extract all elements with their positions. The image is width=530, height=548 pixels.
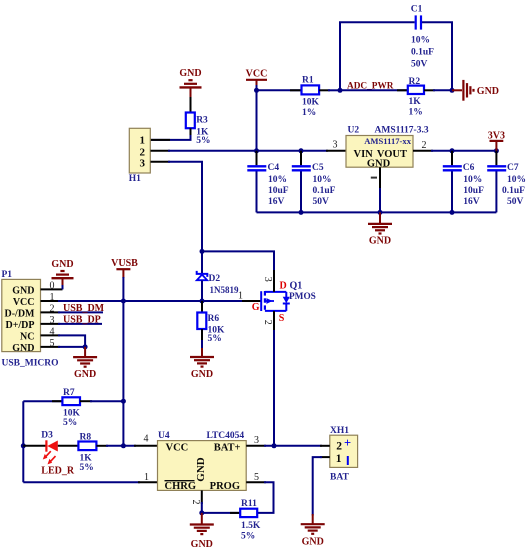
pin R7.2 xyxy=(80,400,92,402)
junction VUSB column xyxy=(121,299,126,304)
svg-text:3: 3 xyxy=(333,140,338,151)
pin H1.3 xyxy=(151,161,171,163)
ground GND above R3 (inverted earth) xyxy=(179,68,201,98)
pin H1.2 xyxy=(151,150,171,152)
wire H1 pin2 to U2 VIN row xyxy=(168,150,328,152)
wire R7 row left xyxy=(23,400,64,402)
ground GND right (sideways earth) xyxy=(452,80,499,101)
svg-text:5: 5 xyxy=(254,472,259,483)
pin XH1.1 xyxy=(320,456,330,458)
svg-text:Q1: Q1 xyxy=(290,280,303,291)
ground GND under P1.5 xyxy=(73,347,97,380)
diode D3 LED xyxy=(41,430,75,476)
svg-text:3: 3 xyxy=(140,157,146,169)
pin U4.2 GND (rotated number) xyxy=(190,490,202,504)
pin Q1 gate lead xyxy=(242,300,262,302)
junction 3V3/C7 xyxy=(494,148,499,153)
junction U4 GND / R11 xyxy=(199,510,204,515)
power port VUSB xyxy=(111,258,138,278)
wire pin5 to junction xyxy=(58,346,85,348)
pin U4.5 PROG xyxy=(246,472,266,483)
svg-text:AMS1117-xx: AMS1117-xx xyxy=(364,136,411,146)
svg-text:GND: GND xyxy=(51,259,73,270)
svg-text:1.5K: 1.5K xyxy=(241,521,261,531)
wire XH1.1 to ground xyxy=(313,457,322,515)
svg-text:R7: R7 xyxy=(63,388,75,398)
svg-text:G: G xyxy=(252,302,260,313)
svg-text:R8: R8 xyxy=(80,432,92,442)
svg-text:1: 1 xyxy=(144,472,149,483)
svg-text:2: 2 xyxy=(190,500,201,505)
svg-text:5%: 5% xyxy=(208,334,222,344)
svg-text:R3: R3 xyxy=(196,116,208,126)
pin P1.2 xyxy=(41,304,61,315)
pin P1.5 xyxy=(41,338,61,349)
wire R1 to junction xyxy=(328,89,340,91)
ground GND under U4 xyxy=(190,513,214,548)
resistor R6 xyxy=(197,301,225,344)
pin XH1.2 xyxy=(320,445,330,447)
svg-text:10%: 10% xyxy=(313,175,332,185)
junction D3 row left xyxy=(21,443,26,448)
wire VUSB column xyxy=(122,277,124,446)
capacitor C6 xyxy=(443,151,484,213)
capacitor C5 xyxy=(292,151,336,213)
svg-text:10uF: 10uF xyxy=(268,186,289,196)
svg-text:U4: U4 xyxy=(158,431,170,441)
svg-text:D-/DM: D-/DM xyxy=(5,308,36,319)
wire BAT+ row xyxy=(264,445,322,447)
pin U2.1 GND (hidden number dash) xyxy=(371,167,380,190)
svg-text:50V: 50V xyxy=(313,197,330,207)
junction C6 rail xyxy=(450,210,455,215)
wire R7 to VUSB column xyxy=(90,400,123,402)
junction D2 column xyxy=(200,299,205,304)
svg-text:CHRG: CHRG xyxy=(165,481,197,492)
svg-text:10%: 10% xyxy=(411,36,430,46)
wire U2 GND to rail xyxy=(379,188,381,212)
svg-text:1%: 1% xyxy=(409,107,423,117)
wire VOUT row xyxy=(431,150,496,152)
svg-text:BAT+: BAT+ xyxy=(214,443,241,454)
svg-text:C7: C7 xyxy=(507,163,519,173)
wire junction to Q1 drain xyxy=(202,251,274,272)
svg-text:5: 5 xyxy=(50,338,55,349)
pin U4.4 VCC xyxy=(134,433,158,445)
wire left column R7-CHRG xyxy=(22,401,24,482)
svg-text:GND: GND xyxy=(477,86,499,97)
connector XH1 BAT xyxy=(330,426,358,483)
svg-text:PROG: PROG xyxy=(210,481,240,492)
svg-text:0.1uF: 0.1uF xyxy=(313,186,336,196)
junction H1 pin3 / D2 xyxy=(200,249,205,254)
svg-text:GND: GND xyxy=(12,343,34,354)
svg-text:3: 3 xyxy=(254,435,259,446)
pin R3.1 xyxy=(190,97,192,113)
svg-text:50V: 50V xyxy=(411,60,428,70)
svg-text:0.1uF: 0.1uF xyxy=(502,186,525,196)
junction VCC column VIN row xyxy=(254,148,259,153)
svg-text:GND: GND xyxy=(195,457,207,482)
wire D3 to R8 xyxy=(58,445,78,447)
svg-text:1N5819: 1N5819 xyxy=(210,285,239,295)
svg-text:BAT: BAT xyxy=(330,472,349,482)
pin R2.1 xyxy=(397,89,408,91)
svg-text:VCC: VCC xyxy=(13,297,35,308)
connector H1 xyxy=(129,128,151,184)
wire R3 to H1 pin1 xyxy=(151,135,191,140)
svg-text:0.1uF: 0.1uF xyxy=(411,48,434,58)
junction NC/GND xyxy=(83,344,88,349)
svg-text:NC: NC xyxy=(20,331,34,342)
pin P1.0 xyxy=(41,281,63,292)
svg-text:GND: GND xyxy=(191,539,213,548)
junction Q1 source / BAT+ xyxy=(272,443,277,448)
svg-text:AMS1117-3.3: AMS1117-3.3 xyxy=(375,125,429,135)
svg-text:D+/DP: D+/DP xyxy=(5,320,34,331)
svg-text:1: 1 xyxy=(336,453,342,465)
svg-text:2: 2 xyxy=(422,140,427,151)
charger U4 LTC4054 xyxy=(158,431,247,492)
junction C5 rail xyxy=(299,210,304,215)
svg-text:2: 2 xyxy=(50,304,55,315)
svg-text:C4: C4 xyxy=(268,163,280,173)
svg-text:4: 4 xyxy=(144,433,149,444)
junction R8/VUSB column xyxy=(121,443,126,448)
svg-text:XH1: XH1 xyxy=(330,426,349,436)
svg-text:1%: 1% xyxy=(302,108,316,118)
svg-text:1K: 1K xyxy=(80,453,93,463)
svg-text:50V: 50V xyxy=(507,197,524,207)
wire NC down xyxy=(58,335,85,347)
wire C1 loop top xyxy=(340,22,452,90)
wire USB_DM xyxy=(58,311,103,313)
svg-text:PMOS: PMOS xyxy=(289,292,316,302)
svg-text:S: S xyxy=(279,313,285,324)
pin R11.1 xyxy=(230,512,242,514)
svg-text:P1: P1 xyxy=(2,270,13,280)
wire R2 to GND junction xyxy=(433,89,452,91)
ground GND above P1.0 (inverted earth) xyxy=(51,259,73,285)
wire R6 to ground xyxy=(201,340,203,349)
pin H1.1 xyxy=(151,139,171,141)
svg-text:2: 2 xyxy=(262,320,273,325)
wire Q1 source down xyxy=(273,330,275,446)
resistor R2 xyxy=(408,77,424,117)
svg-text:5%: 5% xyxy=(241,531,255,541)
svg-text:GND: GND xyxy=(191,369,213,380)
svg-text:D3: D3 xyxy=(41,430,53,440)
ground GND under R6 xyxy=(190,348,214,380)
svg-text:1K: 1K xyxy=(409,97,422,107)
svg-text:GND: GND xyxy=(302,536,324,547)
capacitor C4 xyxy=(247,151,288,213)
svg-text:10uF: 10uF xyxy=(463,186,484,196)
svg-text:0: 0 xyxy=(50,281,55,292)
wire H1 pin3 down xyxy=(168,162,202,252)
svg-text:4: 4 xyxy=(50,327,55,338)
resistor R1 xyxy=(302,75,320,118)
wire CHRG row xyxy=(23,481,140,483)
wire VCC to R1 row xyxy=(256,85,258,90)
svg-text:GND: GND xyxy=(12,285,34,296)
wire to D3 xyxy=(23,445,46,447)
svg-text:2: 2 xyxy=(336,441,342,453)
svg-text:USB_DM: USB_DM xyxy=(63,303,105,314)
pin P1.4 xyxy=(41,327,61,338)
wire VCC column xyxy=(256,90,258,151)
capacitor C7 xyxy=(487,151,526,213)
svg-text:R1: R1 xyxy=(302,75,314,85)
pin Q1.3 drain xyxy=(262,270,274,292)
svg-text:GND: GND xyxy=(367,159,391,170)
svg-text:VCC: VCC xyxy=(166,443,189,454)
svg-text:1: 1 xyxy=(140,135,146,147)
transistor Q1 PMOS xyxy=(261,291,290,311)
wire junction to R2 xyxy=(340,89,408,91)
resistor R11 xyxy=(240,499,261,541)
capacitor C1 xyxy=(411,4,434,69)
pin U4.3 BAT+ xyxy=(246,435,266,446)
svg-text:C1: C1 xyxy=(411,4,423,14)
svg-text:16V: 16V xyxy=(268,197,285,207)
junction R7/VUSB xyxy=(121,399,126,404)
resistor R7 xyxy=(62,388,80,428)
wire P1.0 up to GND xyxy=(62,283,64,289)
diode D2 1N5819 xyxy=(197,251,239,301)
wire VCC row P1 to Q1 gate xyxy=(58,300,244,302)
svg-text:VCC: VCC xyxy=(246,69,268,80)
junction R2/C1/GND xyxy=(450,88,455,93)
svg-text:USB_MICRO: USB_MICRO xyxy=(2,358,59,368)
wire U4 GND to junction xyxy=(201,502,203,513)
svg-text:10%: 10% xyxy=(463,175,482,185)
pin R7.1 xyxy=(52,400,64,402)
svg-text:GND: GND xyxy=(369,236,391,247)
ground GND under U2 xyxy=(368,212,392,246)
regulator U2 AMS1117-3.3 xyxy=(346,125,429,169)
svg-text:VUSB: VUSB xyxy=(111,258,138,269)
svg-text:U2: U2 xyxy=(348,125,360,135)
svg-text:1: 1 xyxy=(50,292,55,303)
pin Q1.2 source xyxy=(262,311,274,332)
svg-text:D2: D2 xyxy=(209,274,221,284)
pin R2.2 xyxy=(424,89,435,91)
pin P1.3 xyxy=(41,315,61,326)
svg-text:+: + xyxy=(344,436,351,450)
svg-text:5%: 5% xyxy=(80,463,94,473)
svg-text:C6: C6 xyxy=(463,163,475,173)
svg-text:3: 3 xyxy=(262,277,273,282)
resistor R8 xyxy=(78,432,96,473)
junction C6 xyxy=(450,148,455,153)
wire ground rail under U2 xyxy=(257,211,497,213)
power port 3V3 xyxy=(488,131,505,151)
svg-text:16V: 16V xyxy=(463,197,480,207)
svg-text:GND: GND xyxy=(74,369,96,380)
svg-text:10K: 10K xyxy=(302,98,320,108)
svg-text:LTC4054: LTC4054 xyxy=(207,431,245,441)
wire VCC to R1 xyxy=(257,89,302,91)
pin U4.1 CHRG xyxy=(138,472,158,483)
wire USB_DP xyxy=(58,323,102,325)
svg-text:1: 1 xyxy=(238,290,243,301)
svg-text:5%: 5% xyxy=(63,418,77,428)
pin R1.2 xyxy=(319,89,330,91)
power port VCC xyxy=(246,69,268,86)
svg-text:C5: C5 xyxy=(312,163,324,173)
pin U2.3 VIN xyxy=(326,140,346,151)
junction ADC_PWR xyxy=(338,88,343,93)
svg-text:10%: 10% xyxy=(268,175,287,185)
wire R8 to U4 VCC xyxy=(106,445,136,447)
svg-text:R2: R2 xyxy=(409,77,421,87)
svg-text:H1: H1 xyxy=(129,174,141,184)
junction VCC/R1 xyxy=(254,88,259,93)
pin P1.1 xyxy=(41,292,61,303)
connector P1 USB_MICRO xyxy=(2,270,59,368)
pin R3.2 xyxy=(190,128,192,136)
ground GND under XH1 xyxy=(301,514,325,547)
junction C5 VIN row xyxy=(299,148,304,153)
wire PROG to R11 xyxy=(258,482,274,513)
pin R1.1 xyxy=(290,89,302,91)
svg-text:5%: 5% xyxy=(196,136,210,146)
svg-text:3: 3 xyxy=(50,315,55,326)
pin U2.2 VOUT xyxy=(413,140,433,151)
svg-text:D: D xyxy=(280,280,287,291)
pin R8.2 xyxy=(96,445,108,447)
resistor R3 xyxy=(186,113,211,146)
svg-text:USB_DP: USB_DP xyxy=(63,315,101,326)
junction U2 GND rail xyxy=(378,210,383,215)
wire junction to R11 xyxy=(202,512,242,514)
svg-text:R6: R6 xyxy=(208,314,220,324)
svg-text:LED_R: LED_R xyxy=(41,466,75,477)
svg-text:GND: GND xyxy=(179,68,201,79)
svg-text:10%: 10% xyxy=(507,175,526,185)
svg-text:R11: R11 xyxy=(241,499,257,509)
